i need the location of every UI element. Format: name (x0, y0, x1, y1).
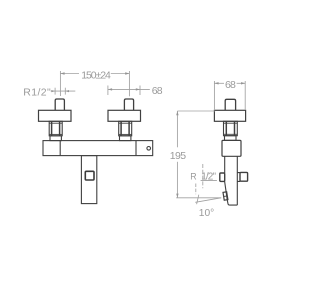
svg-text:R1/2": R1/2" (23, 86, 51, 98)
svg-text:R: R (190, 172, 196, 182)
svg-text:68: 68 (225, 79, 236, 91)
svg-text:195: 195 (170, 150, 186, 162)
svg-text:1/2": 1/2" (201, 171, 216, 182)
svg-text:68: 68 (152, 85, 163, 97)
svg-text:10°: 10° (199, 208, 214, 219)
svg-text:150±24: 150±24 (81, 69, 111, 81)
